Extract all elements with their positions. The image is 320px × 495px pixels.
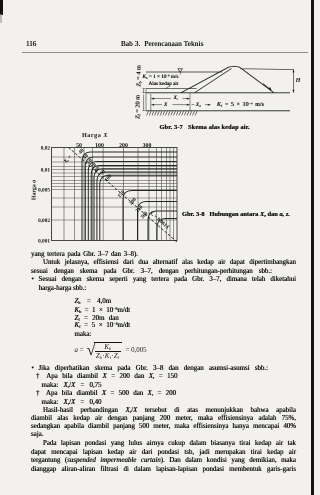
svg-text:100: 100 [95,143,104,149]
svg-text:200: 200 [119,143,128,149]
ground surface line [146,92,290,94]
svg-text:150: 150 [117,189,127,199]
svg-text:0,001: 0,001 [38,238,50,244]
water surface symbol [178,69,183,75]
blanket (alas kedap air) top [146,88,197,90]
scan smudge top-left [0,0,3,15]
svg-text:0,005: 0,005 [38,188,50,194]
svg-text:Harga X: Harga X [82,132,108,139]
impermeable base line [146,110,290,112]
svg-text:0,002: 0,002 [38,218,50,224]
dam embankment outline [181,66,274,92]
svg-text:100: 100 [104,173,114,183]
svg-text:0,01: 0,01 [41,168,51,174]
svg-text:300: 300 [143,143,152,149]
upstream water level line [146,71,222,73]
page gutter line right [311,0,313,495]
svg-text:0,02: 0,02 [41,146,51,152]
dashed guide line a=0,061X [69,148,178,243]
svg-text:Harga a: Harga a [32,180,38,200]
